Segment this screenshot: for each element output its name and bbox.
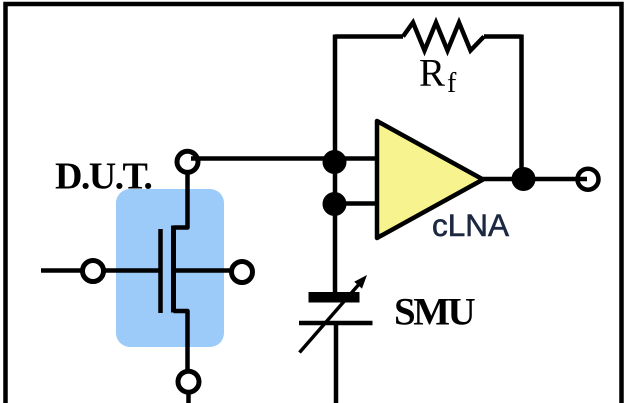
svg-text:R: R <box>419 52 445 95</box>
svg-text:cLNA: cLNA <box>432 207 509 243</box>
svg-text:SMU: SMU <box>394 291 476 334</box>
svg-text:f: f <box>447 68 457 99</box>
svg-text:D.U.T.: D.U.T. <box>55 156 151 198</box>
